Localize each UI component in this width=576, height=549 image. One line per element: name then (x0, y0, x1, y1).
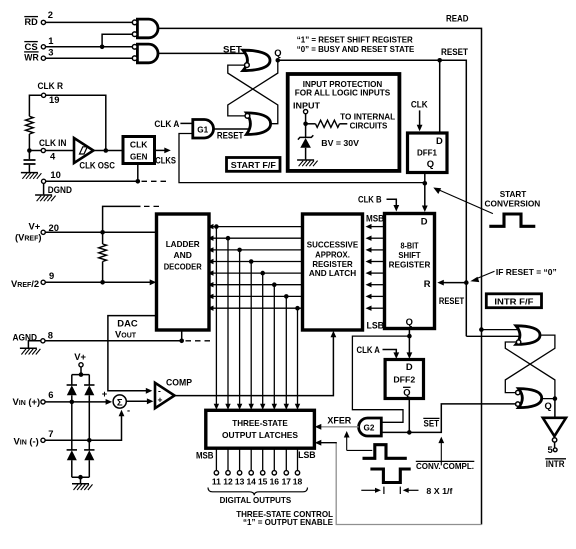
OR gate INTR latch top (516, 326, 540, 345)
wire CS to NAND2 with branch to NAND1 (46, 46, 133, 48)
svg-text:FOR ALL LOGIC INPUTS: FOR ALL LOGIC INPUTS (295, 88, 391, 97)
svg-text:DFF1: DFF1 (417, 147, 437, 157)
wire SR to SAR bit 8 (369, 307, 385, 309)
svg-text:CLK OSC: CLK OSC (79, 159, 115, 170)
wire clamp bottom rail to ground (72, 476, 90, 478)
pin 14 digital output (250, 448, 252, 470)
pin 16 digital output (273, 448, 275, 470)
diode clamp lower left (67, 449, 77, 451)
wire SR to SAR bit 2 (369, 237, 385, 239)
wire SR to SAR bit 1 (369, 226, 385, 228)
INTR latch cross-coupling wires (505, 335, 555, 393)
INPUT PROTECTION box (288, 74, 400, 171)
svg-text:+: + (158, 395, 163, 405)
svg-text:8: 8 (48, 329, 53, 340)
svg-text:Q: Q (427, 158, 434, 169)
brace digital outputs (208, 488, 308, 496)
svg-text:AND: AND (173, 250, 191, 260)
wire DGND rail with dashed continuation (46, 180, 138, 182)
wire V+ to ladder (45, 231, 156, 233)
ground (clamp) (72, 483, 89, 485)
wire AGND rail with dashes (45, 340, 182, 342)
svg-text:RD: RD (25, 16, 38, 27)
wire READ output-enable path into latches (336, 443, 481, 525)
wire G1 lower input from DFF1 Q line (179, 134, 425, 183)
START latch cross-coupling wires (228, 60, 278, 116)
block THREE-STATE OUTPUT LATCHES (206, 410, 315, 448)
capacitor at CLK IN (28, 151, 30, 160)
dimension 8 X 1/f (361, 489, 376, 491)
svg-text:MSB: MSB (366, 212, 384, 223)
wire RESET into INTR latch (466, 335, 520, 337)
svg-text:LSB: LSB (298, 449, 316, 460)
svg-text:DGND: DGND (48, 184, 72, 195)
wire XFER: G2 output to latches (319, 426, 359, 428)
svg-text:CLK R: CLK R (38, 80, 64, 91)
node Q of INTR latch (553, 396, 558, 401)
svg-text:THREE-STATE: THREE-STATE (232, 418, 288, 428)
block SUCCESSIVE APPROX REGISTER AND LATCH (303, 214, 363, 330)
svg-text:DFF2: DFF2 (393, 374, 415, 384)
svg-text:TO INTERNAL: TO INTERNAL (340, 112, 395, 121)
wire RD to NAND1 (46, 21, 133, 23)
wire RESET to DFF1 D input (439, 60, 441, 133)
svg-text:COMP: COMP (166, 377, 192, 388)
gate G2 (359, 418, 382, 436)
svg-text:12: 12 (223, 477, 233, 487)
svg-text:+: + (102, 388, 108, 399)
svg-text:CONV. COMPL.: CONV. COMPL. (416, 462, 474, 471)
node INPUT terminal (304, 110, 308, 114)
wire COMP output to SAR (175, 336, 334, 396)
pin 17 digital output (285, 448, 287, 470)
svg-text:13: 13 (235, 477, 245, 487)
annotation arrow from START CONVERSION pulse (438, 189, 493, 213)
svg-text:CLK A: CLK A (357, 344, 381, 355)
wire VREF/2 into ladder (arrow) (45, 281, 151, 283)
svg-text:16: 16 (270, 477, 280, 487)
svg-text:MSB: MSB (196, 449, 214, 460)
svg-text:D: D (436, 135, 443, 146)
wire SR Q to DFF2 D and G2 (408, 329, 410, 355)
svg-text:WR: WR (24, 52, 39, 63)
pin 11 digital output (215, 448, 217, 470)
OR gate START latch bottom (246, 113, 270, 135)
svg-text:6: 6 (48, 389, 53, 400)
svg-text:10: 10 (50, 169, 60, 180)
gate G1 (193, 120, 214, 139)
diode clamp upper left (71, 375, 73, 385)
wire READ branch to INTR latch top gate (481, 329, 520, 331)
svg-text:CLK IN: CLK IN (39, 137, 67, 148)
svg-text:OUTPUT LATCHES: OUTPUT LATCHES (222, 430, 298, 440)
svg-text:7: 7 (48, 428, 53, 439)
wire RESET net: Q to right edge then down (278, 60, 467, 336)
svg-text:START: START (500, 190, 527, 199)
svg-text:“1” = OUTPUT ENABLE: “1” = OUTPUT ENABLE (243, 518, 334, 527)
wire DFF1 Q down to shift register D (424, 173, 426, 207)
svg-text:D: D (406, 361, 413, 372)
summer (sigma) (113, 395, 126, 408)
svg-text:XFER: XFER (327, 414, 351, 425)
START F/F label box (227, 158, 281, 172)
svg-text:9: 9 (49, 270, 54, 281)
svg-text:BV = 30V: BV = 30V (321, 139, 359, 148)
wire SR to SAR bit 6 (369, 284, 385, 286)
svg-text:READ: READ (446, 13, 469, 24)
svg-text:CLK A: CLK A (154, 118, 179, 129)
wire data bus bit 3 (239, 250, 241, 405)
svg-text:SUCCESSIVE: SUCCESSIVE (307, 240, 359, 250)
svg-text:3: 3 (48, 46, 53, 57)
wire V+ branch up with dashed end (103, 206, 141, 232)
wire CLK R rails (29, 95, 41, 116)
svg-text:V+: V+ (74, 351, 86, 362)
svg-text:CIRCUITS: CIRCUITS (350, 122, 388, 131)
wire data bus bit 4 (250, 262, 252, 405)
svg-text:LSB: LSB (367, 320, 385, 331)
resistor to internal circuits (306, 123, 316, 125)
diode clamp upper right (88, 375, 90, 385)
svg-text:Σ: Σ (117, 397, 123, 408)
wire SR to SAR bit 3 (369, 249, 385, 251)
svg-text:R: R (424, 278, 431, 289)
block LADDER AND DECODER (157, 214, 210, 330)
svg-text:“1” = RESET SHIFT REGISTER: “1” = RESET SHIFT REGISTER (297, 36, 413, 45)
wire RESET to shift register R input (442, 282, 467, 284)
CLK GEN box (123, 137, 155, 164)
svg-text:Q: Q (545, 400, 552, 411)
wire VIN- to summer (from below) (45, 414, 121, 441)
wire CLKS output arrow (155, 149, 167, 151)
waveform CONV COMPL pulse (370, 469, 410, 483)
svg-text:DIGITAL OUTPUTS: DIGITAL OUTPUTS (220, 496, 292, 505)
wire data bus bit 2 (227, 238, 229, 405)
svg-text:4: 4 (50, 150, 56, 161)
svg-text:G1: G1 (197, 125, 208, 134)
OR gate START latch top (243, 50, 270, 70)
wire VIN+ to summer (45, 401, 107, 403)
op-amp CLK OSC buffer (74, 138, 93, 163)
svg-text:V+: V+ (29, 221, 41, 232)
wire CLK OSC out to CLK GEN (93, 150, 123, 152)
svg-text:15: 15 (258, 477, 268, 487)
svg-text:CS: CS (25, 41, 38, 52)
zener diode BV = 30V (305, 124, 307, 138)
INTR F/F label box (486, 294, 541, 308)
svg-text:DECODER: DECODER (164, 262, 202, 272)
svg-text:5: 5 (548, 444, 553, 455)
pin 18 digital output (297, 448, 299, 470)
AND gate A2 (CS/WR) with inverting inputs (137, 44, 158, 63)
pin 15 digital output (262, 448, 264, 470)
svg-text:VIN (-): VIN (-) (14, 436, 39, 447)
wire SET net: G2 input / to INTR latch (381, 404, 516, 433)
svg-text:REGISTER: REGISTER (389, 259, 431, 269)
resistor (CLK R to CLK IN) (26, 116, 34, 134)
OR gate INTR latch bottom (519, 389, 542, 408)
svg-text:14: 14 (246, 477, 256, 487)
svg-text:LADDER: LADDER (166, 239, 200, 249)
wire G1 output RESET to START latch (214, 128, 249, 130)
wire data bus bit 5 (262, 273, 264, 405)
wire SR to SAR bit 4 (369, 261, 385, 263)
svg-text:GEN: GEN (130, 151, 148, 161)
wire data bus bit 6 (273, 285, 275, 405)
svg-text:CLK: CLK (411, 98, 428, 109)
wire READ net: A1 output to right edge, down (158, 28, 482, 524)
wire data bus bit 1 (215, 227, 217, 405)
svg-text:Q: Q (406, 316, 413, 327)
svg-text:CLK: CLK (130, 140, 148, 150)
svg-text:SET: SET (424, 418, 440, 429)
svg-text:-: - (127, 405, 130, 416)
ground (AGND) (28, 341, 40, 348)
annotation arrow CONV COMPL to SET line (440, 440, 442, 465)
svg-text:1: 1 (48, 35, 53, 46)
svg-text:DAC: DAC (117, 317, 138, 328)
wire data bus bit 8 (297, 308, 299, 405)
wire WR to NAND2 (46, 57, 133, 59)
ground (DGND) (35, 194, 52, 196)
diode clamp lower right (84, 449, 94, 451)
comparator COMP (155, 383, 175, 408)
svg-text:17: 17 (282, 477, 292, 487)
svg-text:VIN (+): VIN (+) (13, 396, 41, 407)
svg-text:11: 11 (212, 477, 221, 487)
svg-text:SET: SET (223, 43, 242, 54)
inverter to INTR pin (543, 418, 566, 436)
svg-text:RESET: RESET (439, 295, 465, 306)
resistor VREF divider (102, 232, 104, 244)
svg-text:2: 2 (48, 9, 53, 20)
svg-text:8-BIT: 8-BIT (400, 241, 419, 251)
wire SR to SAR bit 7 (369, 295, 385, 297)
pin 12 digital output (227, 448, 229, 470)
svg-text:18: 18 (293, 477, 303, 487)
svg-text:Q: Q (274, 47, 281, 58)
flip-flop DFF2 (385, 360, 423, 399)
wire DFF2 Qbar to SET line (408, 399, 410, 433)
pin 13 digital output (239, 448, 241, 470)
waveform XFER pulse (363, 445, 407, 459)
svg-text:CONVERSION: CONVERSION (485, 200, 541, 209)
svg-text:CLKS: CLKS (155, 155, 176, 166)
wire SET: A2 output to START latch (158, 52, 247, 54)
svg-text:CLK B: CLK B (358, 194, 382, 205)
svg-text:RESET: RESET (441, 46, 468, 57)
svg-text:RESET: RESET (217, 130, 244, 141)
svg-text:IF RESET = “0”: IF RESET = “0” (496, 268, 557, 277)
svg-text:Q: Q (403, 387, 410, 398)
flip-flop DFF1 (408, 133, 448, 173)
svg-text:START F/F: START F/F (231, 160, 276, 170)
pin 5 INTR terminal (553, 448, 557, 452)
svg-text:G2: G2 (364, 423, 375, 432)
svg-text:“0” = BUSY AND RESET STATE: “0” = BUSY AND RESET STATE (297, 45, 415, 54)
svg-text:INTR: INTR (546, 458, 565, 469)
ground (capacitor) (21, 172, 38, 174)
ground (input protection) (297, 159, 314, 161)
svg-text:AND LATCH: AND LATCH (309, 268, 356, 278)
annotation arrow XFER pulse (347, 449, 373, 451)
wire summer to comparator (126, 400, 149, 402)
AND gate A1 (RD/CS) with inverting inputs (137, 19, 158, 38)
svg-text:INTR F/F: INTR F/F (494, 296, 533, 306)
svg-text:8 X 1/f: 8 X 1/f (426, 487, 452, 496)
wire SR to SAR bit 5 (369, 272, 385, 274)
svg-text:D: D (421, 216, 428, 227)
block 8-BIT SHIFT REGISTER (385, 214, 435, 329)
wire data bus bit 7 (285, 296, 287, 404)
